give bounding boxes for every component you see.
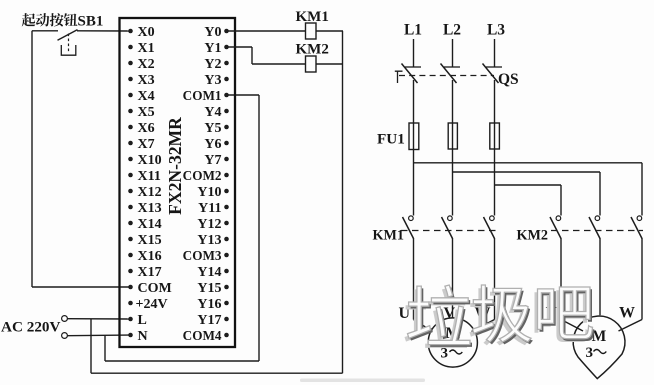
QS handle: [395, 71, 403, 83]
wire tap phase1 run: [414, 162, 643, 164]
svg-text:Y6: Y6: [204, 137, 221, 152]
QS fixed contact tick L1: [405, 66, 421, 68]
watermark 垃圾吧: [405, 285, 595, 348]
terminal circle N: [62, 333, 68, 339]
PLC output pin dot COM2: [224, 173, 229, 178]
scan smudge bottom: [300, 379, 425, 383]
svg-text:AC 220V: AC 220V: [1, 319, 61, 336]
PLC output pin dot Y5: [224, 125, 229, 130]
svg-text:X13: X13: [138, 201, 162, 216]
wire phase 1 QS to KM1 contact: [413, 80, 415, 216]
svg-text:3: 3: [586, 345, 594, 361]
svg-text:L2: L2: [443, 22, 461, 39]
svg-text:KM2: KM2: [517, 228, 549, 244]
svg-text:Y10: Y10: [197, 185, 221, 200]
wire KM2 pole3 into motor: [619, 320, 643, 332]
wire run up to COM1: [258, 95, 260, 361]
KM1 linkage dashed: [401, 230, 500, 232]
fuse FU1 body 1: [409, 123, 419, 150]
wire tap phase2 down: [599, 172, 601, 216]
wire KM1 pole1 into motor: [414, 320, 433, 332]
PLC output pin dot Y4: [224, 109, 229, 114]
svg-text:COM: COM: [138, 281, 172, 296]
svg-text:Y0: Y0: [204, 25, 221, 40]
svg-text:COM4: COM4: [183, 328, 222, 343]
wire L branch down: [90, 319, 92, 373]
QS linkage dashed: [399, 75, 494, 77]
wire phase 2 QS to KM1 contact: [452, 80, 454, 216]
svg-text:X5: X5: [138, 105, 155, 120]
motor M2 body (teardrop): [573, 316, 625, 379]
wire Y1 down: [251, 47, 253, 64]
svg-text:Y4: Y4: [204, 105, 221, 120]
PLC input pin dot X6: [128, 125, 133, 130]
wire Y1 right: [227, 46, 253, 48]
wire N terminal to N pin: [68, 334, 131, 337]
svg-text:L3: L3: [487, 22, 505, 39]
PLC output pin dot Y11: [224, 205, 229, 210]
PLC output pin dot Y1: [224, 45, 229, 50]
svg-text:KM1: KM1: [373, 228, 405, 244]
svg-text:COM2: COM2: [183, 168, 222, 183]
pushbutton SB1 (NO, with actuator): [32, 30, 78, 56]
svg-text:Y7: Y7: [204, 153, 221, 168]
wire N branch run: [105, 360, 259, 362]
wire tap phase3 run: [495, 184, 562, 186]
coil KM2: [306, 56, 317, 72]
QS blade L3: [483, 64, 499, 84]
PLC output pin dot Y0: [224, 29, 229, 34]
PLC input pin dot X1: [128, 45, 133, 50]
coil KM1: [306, 23, 317, 39]
contact KM1 pole 1: [403, 216, 414, 239]
svg-text:QS: QS: [498, 71, 519, 88]
wire SB1 down-left leg: [31, 31, 33, 287]
wire KM2 pole2 down: [599, 238, 601, 315]
fuse FU1 body 2: [448, 123, 457, 149]
PLC output pin dot Y10: [224, 189, 229, 194]
QS fixed contact tick L2: [444, 66, 460, 68]
svg-text:Y15: Y15: [197, 281, 221, 296]
svg-text:X6: X6: [138, 121, 155, 136]
PLC output pin dot Y15: [224, 285, 229, 290]
svg-text:X0: X0: [138, 25, 155, 40]
svg-text:COM1: COM1: [183, 88, 222, 103]
wire Y1 to KM2 coil: [252, 63, 306, 65]
wire COM1 to run: [227, 94, 260, 96]
svg-text:Y13: Y13: [197, 233, 221, 248]
contact KM1 pole 2: [442, 216, 453, 239]
svg-text:X17: X17: [138, 265, 162, 280]
contact KM1 pole 3: [484, 216, 495, 239]
PLC output pin dot Y17: [224, 317, 229, 322]
PLC input pin dot X17: [128, 269, 133, 274]
svg-text:COM3: COM3: [183, 248, 222, 263]
PLC output pin dot Y13: [224, 237, 229, 242]
wire SB1 to X0: [77, 30, 131, 32]
svg-text:X3: X3: [138, 73, 155, 88]
svg-text:Y3: Y3: [204, 73, 221, 88]
PLC input pin dot +24V: [128, 301, 133, 306]
PLC input pin dot X16: [128, 253, 133, 258]
svg-text:X14: X14: [138, 217, 162, 232]
svg-text:X11: X11: [138, 169, 161, 184]
PLC input pin dot X0: [128, 29, 133, 34]
PLC output pin dot Y6: [224, 141, 229, 146]
svg-text:N: N: [138, 329, 148, 344]
wire L2 stub: [452, 39, 454, 67]
KM2 linkage dashed: [551, 230, 643, 232]
PLC input pin dot X13: [128, 205, 133, 210]
PLC output pin dot Y3: [224, 77, 229, 82]
svg-text:X2: X2: [138, 57, 155, 72]
svg-text:+24V: +24V: [136, 297, 168, 312]
svg-text:FU1: FU1: [377, 131, 405, 148]
wire tap phase3 down: [560, 185, 562, 216]
PLC input pin dot COM: [128, 285, 133, 290]
wire bottom run up to coils common: [342, 31, 344, 373]
PLC input pin dot X14: [128, 221, 133, 226]
PLC input pin dot X15: [128, 237, 133, 242]
wire KM1 pole1 down: [413, 238, 415, 320]
PLC output pin dot Y2: [224, 61, 229, 66]
wire L branch bottom run: [91, 372, 343, 374]
svg-text:W: W: [619, 305, 635, 322]
svg-text:Y14: Y14: [197, 265, 221, 280]
wire tap phase2 run: [453, 171, 601, 173]
wire Y0 to KM1 coil: [227, 30, 307, 32]
svg-text:KM1: KM1: [296, 9, 329, 25]
wire phase 3 QS to KM1 contact: [494, 80, 496, 216]
svg-text:SB1: SB1: [78, 14, 104, 30]
wire L1 stub: [413, 39, 415, 67]
wire KM1 coil to common: [316, 30, 343, 32]
svg-text:X16: X16: [138, 249, 162, 264]
svg-text:Y17: Y17: [197, 313, 221, 328]
svg-text:L: L: [138, 313, 147, 328]
contact KM2 pole 2: [589, 216, 600, 239]
svg-text:L1: L1: [404, 22, 422, 39]
QS fixed contact tick L3: [486, 66, 502, 68]
svg-text:X12: X12: [138, 185, 162, 200]
contact KM2 pole 3: [631, 216, 642, 239]
svg-text:Y11: Y11: [198, 201, 221, 216]
PLC input pin dot X5: [128, 109, 133, 114]
label: start pushbutton caption 起动按钮SB1: [22, 13, 104, 30]
svg-text:Y5: Y5: [204, 121, 221, 136]
QS blade L2: [441, 64, 457, 84]
PLC input pin dot X4: [128, 93, 133, 98]
wire L3 stub: [494, 39, 496, 67]
svg-text:Y12: Y12: [197, 217, 221, 232]
PLC input pin dot X11: [128, 173, 133, 178]
PLC output pin dot Y14: [224, 269, 229, 274]
PLC input pin dot X3: [128, 77, 133, 82]
wire KM1 pole3 down: [494, 238, 496, 320]
PLC output pin dot COM1: [224, 93, 229, 98]
fuse FU1 body 3: [490, 123, 500, 149]
PLC output pin dot Y7: [224, 157, 229, 162]
svg-text:X15: X15: [138, 233, 162, 248]
wire L terminal to L pin: [68, 318, 131, 320]
QS blade L1: [402, 64, 418, 84]
PLC output pin dot COM4: [224, 333, 229, 338]
wire KM2 coil to common: [316, 63, 343, 65]
PLC input pin dot N: [128, 333, 133, 338]
svg-text:X7: X7: [138, 137, 155, 152]
PLC input pin dot X7: [128, 141, 133, 146]
terminal circle L: [62, 316, 68, 322]
svg-text:Y2: Y2: [204, 57, 221, 72]
svg-text:FX2N-32MR: FX2N-32MR: [165, 117, 185, 215]
PLC output pin dot Y12: [224, 221, 229, 226]
svg-text:X1: X1: [138, 41, 155, 56]
svg-text:X10: X10: [138, 153, 162, 168]
PLC output pin dot COM3: [224, 253, 229, 258]
wire KM2 pole1 down: [560, 238, 562, 320]
wire KM2 pole1 into motor: [561, 320, 583, 332]
PLC input pin dot L: [128, 317, 133, 322]
wire KM1 pole3 into motor: [472, 320, 495, 332]
PLC output pin dot Y16: [224, 301, 229, 306]
wire KM2 pole3 down: [641, 238, 643, 320]
wire KM1 pole2 down: [452, 238, 454, 318]
motor M1 circle: [428, 318, 477, 367]
wire tap phase1 down: [641, 163, 643, 216]
svg-text:KM2: KM2: [296, 42, 329, 58]
PLC FX2N-32MR box: [120, 18, 236, 347]
wire N branch down: [104, 335, 106, 361]
svg-text:Y16: Y16: [197, 297, 221, 312]
contact KM2 pole 1: [550, 216, 561, 239]
PLC input pin dot X2: [128, 61, 133, 66]
PLC input pin dot X12: [128, 189, 133, 194]
svg-text:X4: X4: [138, 89, 155, 104]
PLC input pin dot X10: [128, 157, 133, 162]
svg-text:Y1: Y1: [204, 41, 221, 56]
wire left leg to COM: [32, 286, 131, 288]
